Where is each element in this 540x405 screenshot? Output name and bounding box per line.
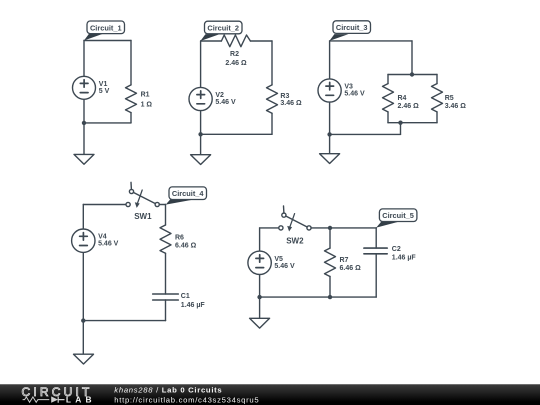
svg-text:Circuit_3: Circuit_3: [336, 23, 368, 32]
wire: circuit3 top horizontal: [330, 40, 412, 42]
wire: circuit2 left vertical lower: [200, 111, 202, 135]
wire: circuit4 right vertical upper: [165, 205, 167, 226]
ground circuit4: [74, 321, 94, 364]
junction dot circuit4: [81, 318, 85, 322]
node label Circuit_3: [329, 21, 370, 41]
svg-text:V4: V4: [98, 234, 107, 241]
svg-text:6.46 Ω: 6.46 Ω: [175, 243, 197, 250]
svg-text:http://circuitlab.com/c43sz534: http://circuitlab.com/c43sz534sqru5: [114, 395, 259, 404]
wire: circuit1 left vertical: [83, 41, 85, 77]
wire: circuit5 bottom horizontal: [260, 296, 377, 298]
wire: circuit5 left vertical upper: [259, 228, 261, 251]
wire: R4 top lead: [387, 75, 389, 84]
svg-text:SW1: SW1: [134, 212, 152, 221]
junction dot circuit3 bottom left: [327, 132, 331, 136]
voltage source V1: [73, 76, 96, 99]
wire: R5 top lead: [436, 75, 438, 84]
resistor R5: [432, 84, 443, 112]
wire: circuit2 right vertical upper: [271, 41, 273, 85]
svg-text:C1: C1: [181, 293, 190, 300]
svg-text:3.46 Ω: 3.46 Ω: [280, 100, 302, 107]
wire: circuit3 parallel top bar: [388, 74, 437, 76]
node label Circuit_5: [376, 209, 417, 228]
resistor R6: [160, 225, 171, 253]
resistor R4: [383, 84, 394, 112]
wire: R4 bottom lead: [387, 112, 389, 123]
logo resistor squiggle: [23, 397, 50, 402]
svg-text:R1: R1: [141, 92, 150, 99]
svg-text:2.46 Ω: 2.46 Ω: [398, 103, 420, 110]
svg-text:R7: R7: [340, 257, 349, 264]
node label Circuit_2: [200, 21, 242, 41]
wire: circuit2 right vertical lower: [271, 113, 273, 134]
wire: circuit5 left vertical lower: [259, 275, 261, 298]
ground circuit2: [191, 134, 211, 164]
footer bar: [0, 384, 540, 405]
svg-text:V1: V1: [99, 81, 108, 88]
svg-text:1.46 µF: 1.46 µF: [392, 254, 417, 261]
voltage source V5: [248, 251, 271, 274]
svg-text:5.46 V: 5.46 V: [344, 91, 365, 98]
ground circuit1: [74, 123, 94, 164]
switch SW2: [279, 206, 311, 232]
wire: circuit2 bottom horizontal: [201, 133, 272, 135]
wire: circuit3 parallel bottom bar: [388, 122, 437, 124]
svg-text:3.46 Ω: 3.46 Ω: [445, 103, 467, 110]
wire: circuit4 left vertical lower: [82, 252, 84, 320]
svg-text:2.46 Ω: 2.46 Ω: [225, 60, 247, 67]
svg-text:LAB: LAB: [66, 395, 96, 405]
svg-text:R3: R3: [280, 93, 289, 100]
wire: circuit3 bottom horizontal: [330, 133, 401, 135]
voltage source V2: [189, 87, 212, 110]
wire: circuit4 left vertical upper: [82, 205, 84, 230]
wire: circuit4 top horizontal: [83, 204, 126, 206]
wire: circuit3 left vertical upper: [329, 41, 331, 79]
svg-text:1 Ω: 1 Ω: [141, 102, 153, 109]
wire: circuit3 right drop to parallel top bar: [411, 41, 413, 75]
svg-text:V2: V2: [215, 92, 224, 99]
wire: R7 bottom lead: [329, 277, 331, 298]
svg-text:R6: R6: [175, 235, 184, 242]
wire: circuit2 left vertical upper: [200, 41, 202, 88]
junction dot circuit5 top: [328, 226, 332, 230]
svg-text:C2: C2: [392, 246, 401, 253]
logo diode: [51, 396, 58, 402]
wire: R7 top lead: [329, 228, 331, 248]
wire: circuit2 top right stub: [250, 40, 272, 42]
svg-text:SW2: SW2: [286, 237, 304, 246]
wire: circuit1 bottom horizontal: [84, 122, 131, 124]
wire: R5 bottom lead: [436, 112, 438, 123]
voltage source V4: [72, 229, 95, 252]
svg-text:6.46 Ω: 6.46 Ω: [340, 265, 362, 272]
svg-text:V5: V5: [274, 256, 283, 263]
svg-text:5.46 V: 5.46 V: [274, 263, 295, 270]
wire: circuit1 top horizontal: [84, 40, 131, 42]
svg-text:R2: R2: [230, 51, 239, 58]
voltage source V3: [318, 79, 341, 102]
svg-text:5 V: 5 V: [99, 88, 110, 95]
junction dot circuit1: [82, 121, 86, 125]
svg-text:Circuit_1: Circuit_1: [90, 23, 122, 32]
svg-text:Circuit_5: Circuit_5: [382, 211, 414, 220]
resistor R2: [221, 35, 250, 47]
wire: circuit5 top horizontal left: [260, 227, 279, 229]
svg-text:1.46 µF: 1.46 µF: [181, 302, 206, 309]
ground circuit3: [320, 134, 340, 163]
svg-text:R4: R4: [398, 95, 407, 102]
wire: circuit3 left vertical lower: [329, 102, 331, 134]
svg-text:R5: R5: [445, 95, 454, 102]
wire: circuit4 right vertical lower: [165, 300, 167, 321]
ground circuit5: [250, 297, 270, 328]
junction dot circuit5 bottom middle: [328, 295, 332, 299]
wire: circuit4 bottom horizontal: [83, 320, 165, 322]
wire: circuit1 right vertical lower: [130, 113, 132, 123]
svg-text:V3: V3: [344, 84, 353, 91]
wire: SW2 common to C2 branch: [311, 227, 376, 229]
wire: circuit1 left vertical lower: [83, 99, 85, 123]
node label Circuit_1: [84, 21, 125, 41]
capacitor C1: [153, 294, 179, 300]
svg-text:Circuit_2: Circuit_2: [207, 24, 239, 33]
junction dot circuit5 bottom left: [257, 295, 261, 299]
resistor R7: [325, 248, 336, 276]
wire: circuit2 top left stub: [201, 40, 222, 42]
wire: circuit1 right vertical upper: [130, 41, 132, 85]
wire: circuit4 right vertical middle: [165, 253, 167, 294]
svg-text:5.46 V: 5.46 V: [215, 99, 236, 106]
wire: SW1 common to corner: [159, 204, 165, 206]
junction dot circuit3 bottom bar: [398, 121, 402, 125]
wire: C2 bottom lead: [375, 254, 377, 297]
resistor R1: [126, 85, 137, 113]
junction dot circuit3 top bar: [410, 72, 414, 76]
svg-text:Circuit_4: Circuit_4: [172, 189, 205, 198]
switch SW1: [126, 182, 159, 208]
node label Circuit_4: [166, 187, 207, 205]
resistor R3: [267, 85, 278, 113]
wire: C2 top lead: [375, 228, 377, 248]
svg-text:khans288 / Lab 0 Circuits: khans288 / Lab 0 Circuits: [114, 385, 222, 394]
junction dot circuit2: [198, 132, 202, 136]
wire: circuit3 bottom bar drop: [400, 123, 402, 135]
svg-text:5.46 V: 5.46 V: [98, 241, 119, 248]
capacitor C2: [364, 248, 387, 254]
